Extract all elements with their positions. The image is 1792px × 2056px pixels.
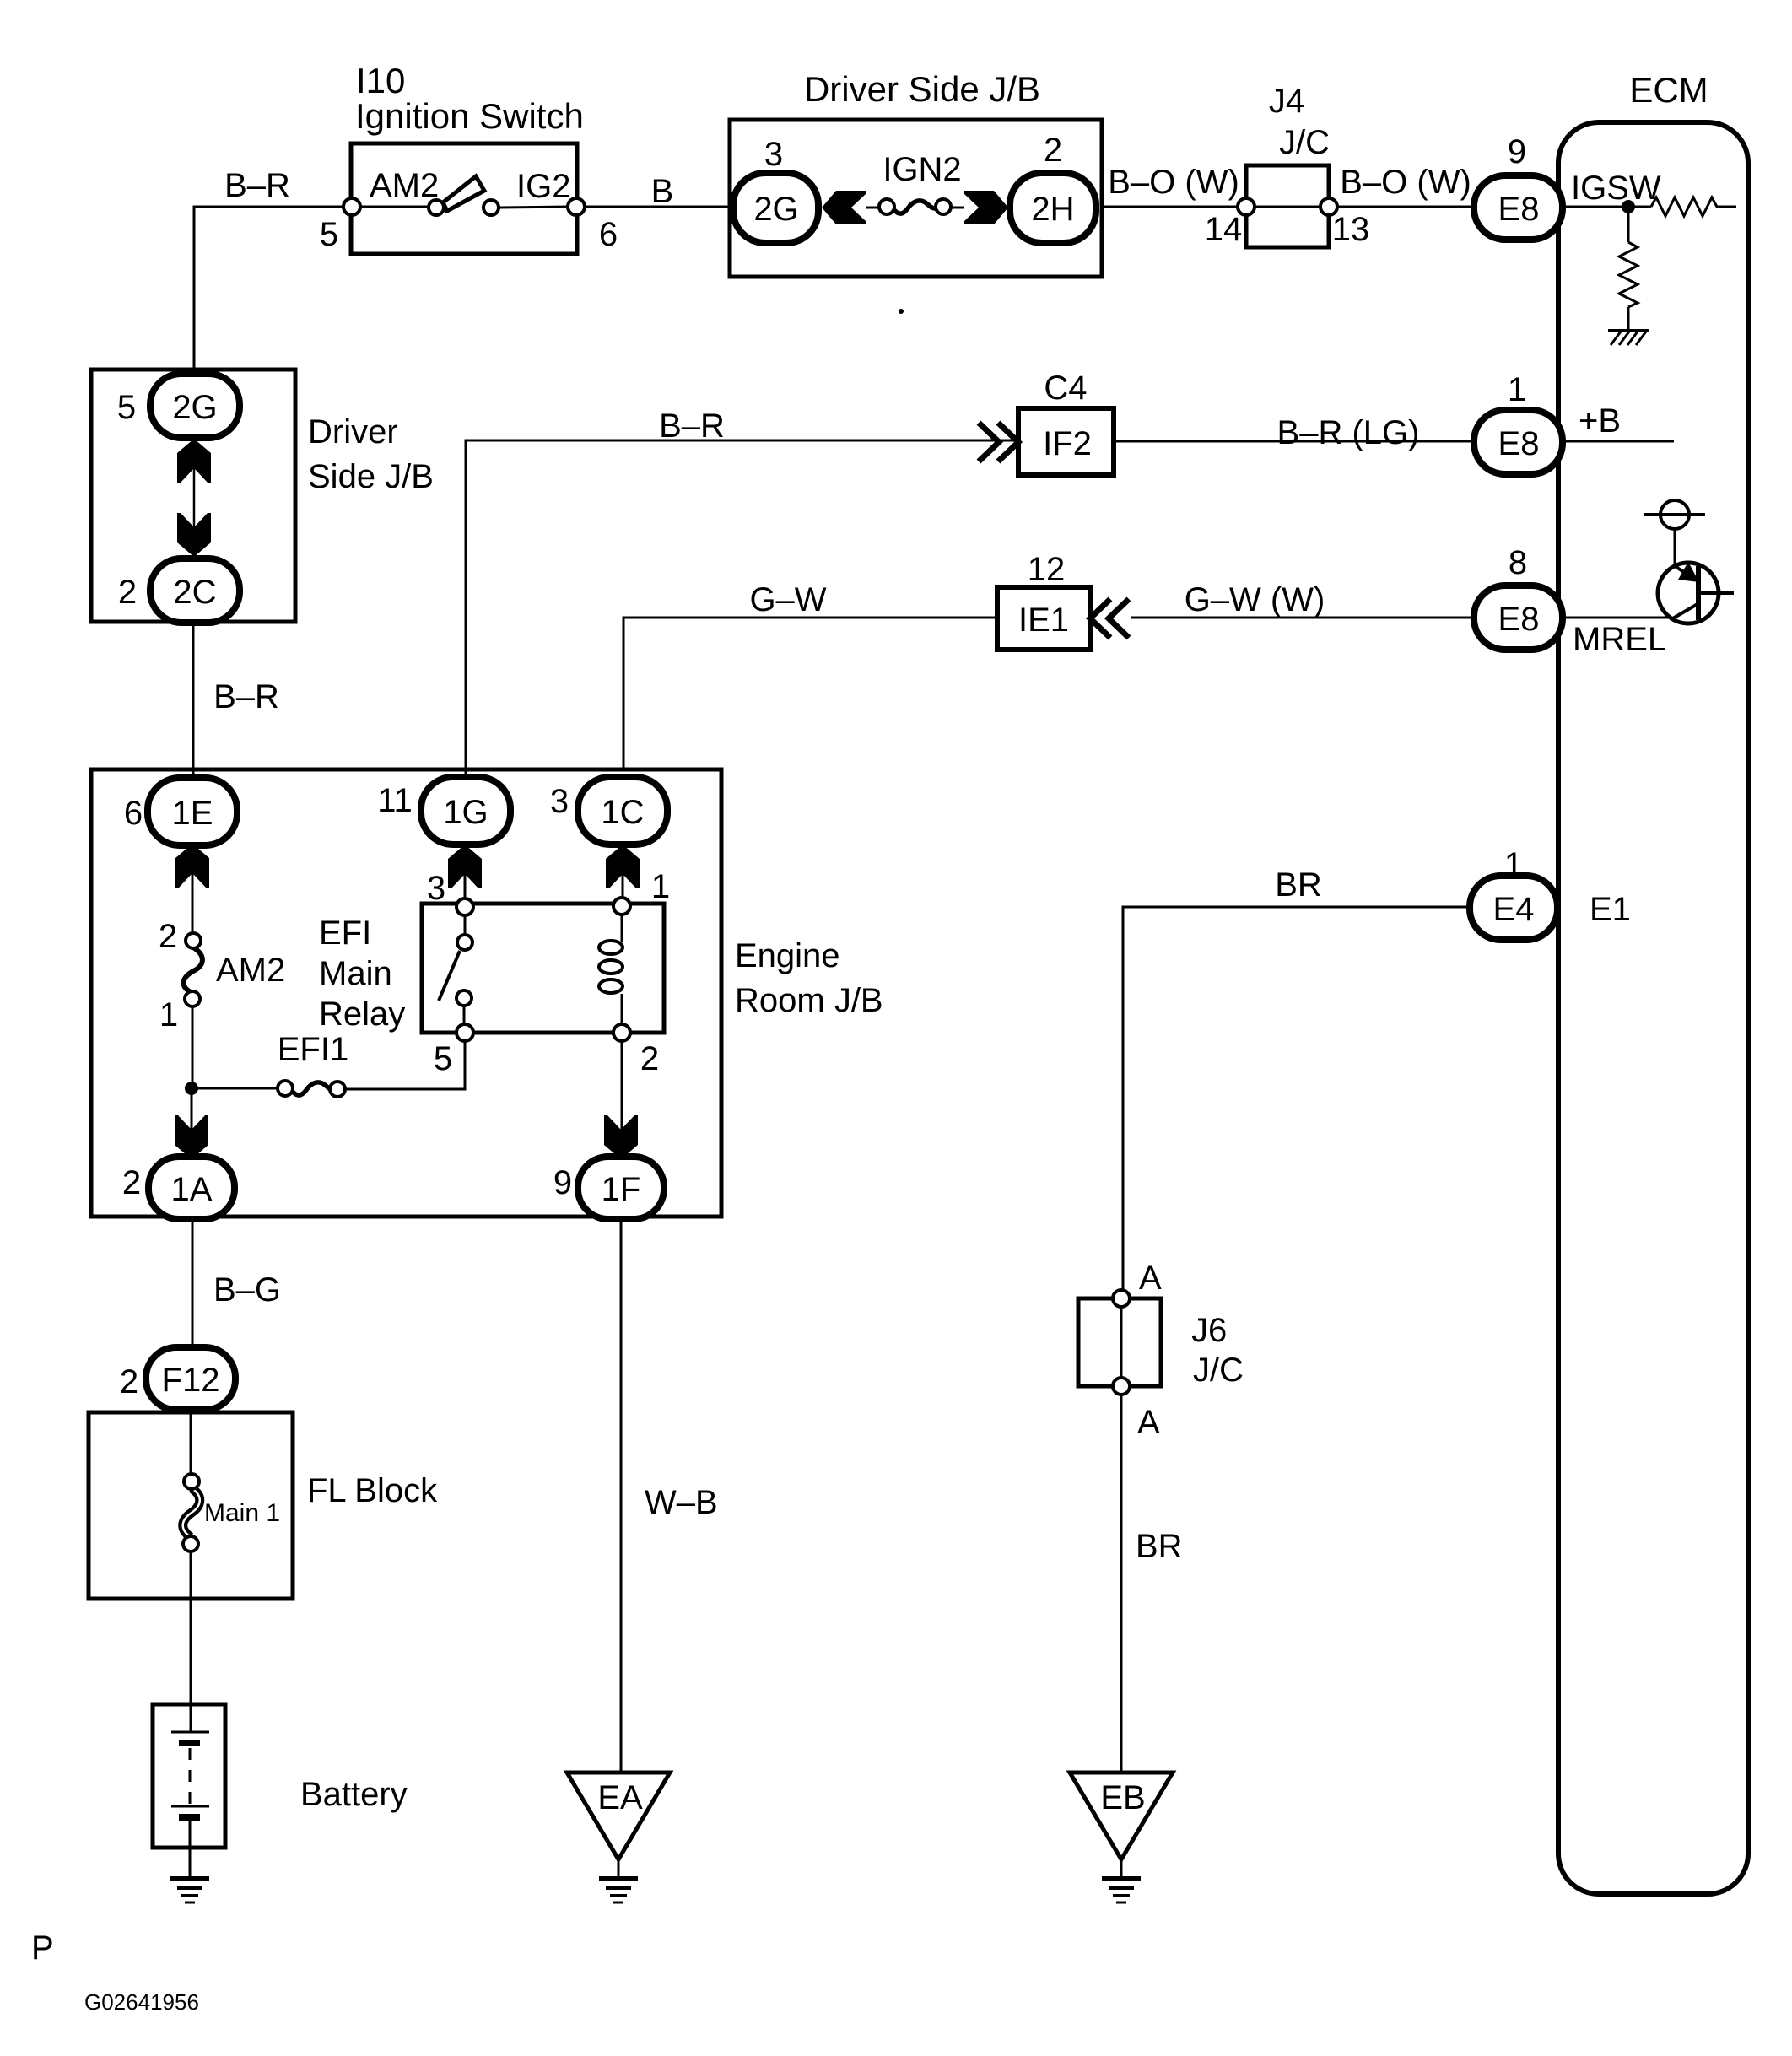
battery — [153, 1704, 408, 1878]
svg-text:B–R: B–R — [659, 407, 725, 445]
svg-text:Driver Side J/B: Driver Side J/B — [804, 69, 1040, 109]
svg-text:5: 5 — [117, 389, 136, 426]
svg-text:E8: E8 — [1498, 191, 1540, 228]
svg-text:2G: 2G — [753, 191, 798, 228]
connector 2G pin 5 (left J/B) — [117, 374, 240, 438]
svg-text:8: 8 — [1509, 544, 1527, 581]
connector 1A pin 2 — [122, 1157, 235, 1219]
junction connector C4 IF2 — [1018, 370, 1114, 475]
wire EFI1 fuse to relay pin 5 — [345, 1041, 465, 1089]
relay pin 1 — [613, 898, 630, 915]
node 14 — [1238, 198, 1255, 215]
transistor Q1 (PNP driver) — [1658, 562, 1734, 623]
svg-text:I10: I10 — [356, 61, 405, 100]
fuse AM2 — [159, 918, 285, 1033]
svg-text:W–B: W–B — [645, 1484, 718, 1521]
svg-text:EFI: EFI — [319, 915, 371, 952]
internal link arrows (2G to 2C) — [177, 439, 211, 557]
svg-text:F12: F12 — [162, 1362, 220, 1399]
connector 1G pin 11 — [377, 777, 510, 845]
relay switch blade — [439, 951, 460, 1001]
connector E8 pin 9 IGSW — [1474, 133, 1661, 240]
wire G-W (W) (ECM pin 8 to IE1) — [1131, 581, 1474, 618]
svg-text:G02641956: G02641956 — [84, 1989, 199, 2015]
node 6 — [568, 198, 585, 215]
junction connector J4 J/C — [1205, 83, 1370, 248]
svg-text:ECM: ECM — [1629, 70, 1708, 110]
svg-text:11: 11 — [377, 782, 413, 819]
svg-text:3: 3 — [427, 870, 445, 907]
wire EFI1 (junction to relay pin 5) — [192, 1087, 278, 1090]
svg-text:2H: 2H — [1031, 191, 1074, 228]
relay switch contact (top) — [457, 935, 472, 950]
arrow up into 1E — [175, 844, 209, 888]
svg-text:1A: 1A — [171, 1171, 213, 1208]
svg-text:5: 5 — [320, 216, 338, 253]
arrow down into 1A — [175, 1115, 208, 1159]
svg-text:IG2: IG2 — [516, 168, 570, 205]
ECM module outline — [1558, 70, 1748, 1894]
svg-text:E1: E1 — [1590, 891, 1631, 928]
svg-text:B–O (W): B–O (W) — [1340, 164, 1471, 201]
wire B-R (1G to IF2) — [466, 407, 1017, 774]
wire F12 to fuse Main 1 — [190, 1410, 192, 1475]
svg-text:FL Block: FL Block — [307, 1472, 438, 1509]
ignition switch I10 — [320, 61, 618, 254]
Driver Side J/B (left) — [91, 370, 434, 622]
connector 2C pin 2 (left J/B) — [118, 559, 240, 623]
svg-text:B–G: B–G — [213, 1271, 281, 1309]
node 13 — [1320, 198, 1337, 215]
svg-text:12: 12 — [1028, 551, 1066, 588]
stray dot — [899, 309, 904, 314]
svg-text:2G: 2G — [172, 389, 217, 426]
fuse EFI1 — [278, 1031, 348, 1097]
svg-text:3: 3 — [550, 783, 569, 820]
wire B-R (2C to 1E) — [193, 623, 279, 780]
svg-text:1: 1 — [651, 868, 670, 905]
node 5 — [343, 198, 360, 215]
svg-text:Main 1: Main 1 — [204, 1499, 280, 1527]
svg-text:6: 6 — [599, 216, 618, 253]
power source symbol (circle) — [1644, 500, 1705, 566]
svg-text:Ignition Switch: Ignition Switch — [355, 96, 584, 136]
arrow up into 1C — [606, 845, 640, 888]
switch contact AM2 — [429, 200, 444, 215]
wire 1C to relay pin 1 — [622, 845, 624, 898]
svg-text:BR: BR — [1136, 1528, 1183, 1565]
svg-text:2: 2 — [120, 1363, 138, 1400]
svg-text:Relay: Relay — [319, 996, 405, 1033]
svg-text:EB: EB — [1100, 1779, 1145, 1816]
svg-text:1: 1 — [1504, 846, 1523, 883]
wire junction to 1A — [191, 1088, 193, 1159]
arrow down into 1F — [604, 1115, 638, 1159]
svg-text:1E: 1E — [172, 795, 213, 832]
svg-text:Main: Main — [319, 955, 392, 992]
svg-text:B–R (LG): B–R (LG) — [1277, 414, 1420, 451]
svg-text:1G: 1G — [443, 794, 488, 831]
svg-text:IE1: IE1 — [1018, 602, 1069, 639]
svg-text:IGSW: IGSW — [1571, 170, 1661, 207]
svg-text:Engine: Engine — [735, 937, 840, 974]
arrow right (into 2H) — [964, 191, 1008, 224]
wire B-R (battery feed to ignition switch AM2) — [194, 167, 344, 374]
svg-text:E8: E8 — [1498, 601, 1540, 638]
wire B-G (1A to F12) — [192, 1219, 281, 1348]
ground (battery) — [170, 1879, 209, 1902]
svg-text:B–R: B–R — [213, 678, 279, 715]
svg-text:6: 6 — [124, 795, 143, 832]
svg-text:1F: 1F — [602, 1171, 641, 1208]
svg-text:Side J/B: Side J/B — [308, 458, 434, 495]
EFI main relay — [422, 868, 670, 1077]
wire B (IG2 to Driver Side J/B) — [585, 173, 733, 210]
svg-text:J6: J6 — [1191, 1312, 1227, 1349]
svg-text:2: 2 — [159, 918, 177, 955]
relay pin 5 — [456, 1024, 473, 1041]
relay coil — [599, 911, 623, 1028]
switch blade — [443, 176, 484, 211]
Engine Room J/B — [91, 769, 883, 1217]
svg-text:2C: 2C — [173, 574, 216, 611]
connector 2H pin 2 — [1010, 132, 1096, 243]
junction connector J6 J/C — [1078, 1260, 1244, 1441]
wire BR (E4 to J6) — [1123, 866, 1470, 1291]
connector E8 pin 1 +B — [1474, 371, 1621, 474]
svg-text:2: 2 — [1044, 132, 1062, 169]
fusible link Main 1 — [183, 1474, 280, 1551]
EFI Main Relay label — [319, 915, 405, 1033]
relay pin 2 — [613, 1024, 630, 1041]
wire 1G to relay pin 3 — [464, 845, 467, 899]
node junction (AM2 / EFI1) — [185, 1082, 198, 1095]
wire IGSW inside ECM — [1563, 206, 1651, 208]
svg-text:B: B — [651, 173, 674, 210]
svg-text:BR: BR — [1275, 866, 1322, 904]
svg-text:P: P — [31, 1929, 54, 1967]
wire relay pin 2 to 1F — [621, 1041, 623, 1159]
junction connector 12 IE1 — [997, 551, 1090, 650]
svg-text:2: 2 — [640, 1040, 659, 1077]
svg-text:3: 3 — [764, 136, 783, 173]
svg-text:5: 5 — [434, 1040, 452, 1077]
connector 1E pin 6 — [124, 778, 237, 845]
node junction on IGSW line — [1622, 200, 1635, 213]
resistor R1 (series, horizontal) — [1651, 197, 1736, 216]
resistor R2 (pull-down, vertical) — [1619, 207, 1638, 331]
Driver Side J/B (top) — [730, 69, 1102, 277]
svg-text:14: 14 — [1205, 211, 1243, 248]
svg-text:Room J/B: Room J/B — [735, 982, 883, 1019]
node A (top) — [1113, 1290, 1130, 1307]
svg-text:13: 13 — [1332, 211, 1370, 248]
svg-text:IF2: IF2 — [1043, 425, 1092, 462]
wire Main 1 to battery — [190, 1551, 192, 1732]
svg-text:G–W: G–W — [749, 581, 826, 618]
wire BR (J6 to EB) — [1121, 1395, 1183, 1773]
svg-text:EFI1: EFI1 — [278, 1031, 348, 1068]
wire B-O (W) (J4 to ECM pin 9) — [1337, 164, 1474, 207]
wire +B inside ECM — [1563, 440, 1674, 443]
wire 1E to fuse AM2 — [192, 844, 194, 935]
svg-text:AM2: AM2 — [216, 952, 285, 989]
wire G-W (1C to IE1) — [623, 581, 996, 771]
arrow left (into 2G) — [822, 191, 866, 224]
connector E8 pin 8 MREL — [1474, 544, 1666, 658]
arrows into IE1 — [1090, 599, 1129, 638]
connector 2G pin 3 — [733, 136, 818, 243]
connector F12 pin 2 — [120, 1347, 235, 1410]
svg-text:A: A — [1137, 1404, 1160, 1441]
svg-text:EA: EA — [597, 1779, 643, 1816]
svg-text:J/C: J/C — [1193, 1352, 1244, 1389]
svg-text:1C: 1C — [601, 794, 644, 831]
FL Block — [89, 1412, 438, 1599]
svg-text:9: 9 — [553, 1164, 572, 1201]
ground (chassis, hatched) — [1608, 331, 1649, 345]
svg-text:E4: E4 — [1493, 891, 1535, 928]
ground (EA earth) — [599, 1879, 638, 1902]
svg-text:2: 2 — [118, 574, 137, 611]
wire B-O (2H to J4) — [1100, 164, 1239, 207]
arrows into C4 IF2 — [979, 423, 1018, 461]
connector 1F pin 9 — [553, 1157, 664, 1219]
ground (EB earth) — [1102, 1879, 1141, 1902]
wire B-R (LG) (IF2 to ECM pin 1) — [1114, 414, 1474, 451]
svg-text:1: 1 — [159, 996, 178, 1033]
arrow up into 1G — [448, 845, 482, 888]
relay switch contact (bottom) — [456, 990, 472, 1006]
svg-text:B–O (W): B–O (W) — [1108, 164, 1239, 201]
svg-text:9: 9 — [1508, 133, 1526, 170]
svg-text:A: A — [1139, 1260, 1162, 1297]
wire fuse AM2 to junction — [192, 1006, 194, 1088]
svg-text:Battery: Battery — [300, 1776, 408, 1813]
connector E4 pin 1 E1 — [1470, 846, 1631, 940]
svg-text:J4: J4 — [1269, 83, 1304, 120]
ground EB — [1070, 1773, 1173, 1878]
svg-text:G–W (W): G–W (W) — [1185, 581, 1325, 618]
connector 1C pin 3 — [550, 777, 667, 845]
svg-text:+B: +B — [1579, 402, 1621, 440]
svg-text:E8: E8 — [1498, 425, 1540, 462]
svg-text:IGN2: IGN2 — [883, 151, 961, 188]
svg-text:1: 1 — [1508, 371, 1526, 408]
svg-text:B–R: B–R — [224, 167, 290, 204]
wire W-B (1F to EA) — [621, 1219, 718, 1773]
ground EA — [567, 1773, 670, 1878]
node A (bottom) — [1113, 1378, 1130, 1395]
svg-text:C4: C4 — [1044, 370, 1087, 407]
svg-text:AM2: AM2 — [370, 167, 439, 204]
switch contact IG2 — [483, 200, 499, 215]
svg-text:MREL: MREL — [1573, 621, 1666, 658]
svg-text:J/C: J/C — [1279, 124, 1330, 161]
svg-text:2: 2 — [122, 1164, 141, 1201]
relay pin 3 — [456, 898, 473, 915]
svg-text:Driver: Driver — [308, 413, 398, 451]
wire MREL inside ECM — [1563, 617, 1671, 619]
fuse IGN2 — [866, 151, 964, 214]
